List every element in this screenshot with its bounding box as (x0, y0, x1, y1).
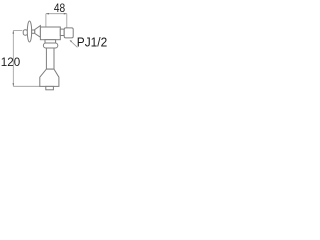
dimension line 48 (46, 14, 67, 28)
inlet pipe right (60, 29, 64, 35)
down pipe (46, 48, 54, 69)
arrowheads 48 (46, 13, 67, 15)
valve body (40, 27, 60, 40)
wall union nut (64, 28, 73, 38)
dimension line 120 (13, 31, 39, 87)
spud escutcheon bell (40, 69, 59, 86)
svg-text:PJ1/2: PJ1/2 (77, 36, 107, 50)
spud stub (46, 86, 54, 89)
leader arrowhead (70, 40, 73, 42)
valve stem (32, 30, 35, 33)
svg-text:120: 120 (1, 55, 21, 69)
outlet neck (45, 40, 56, 43)
svg-text:48: 48 (54, 1, 66, 15)
slip nut (43, 43, 57, 48)
handwheel (27, 21, 31, 42)
arrowheads 120 (13, 31, 15, 87)
bonnet cone (35, 26, 41, 38)
handle cap nut (23, 30, 27, 35)
leader line (70, 40, 77, 47)
